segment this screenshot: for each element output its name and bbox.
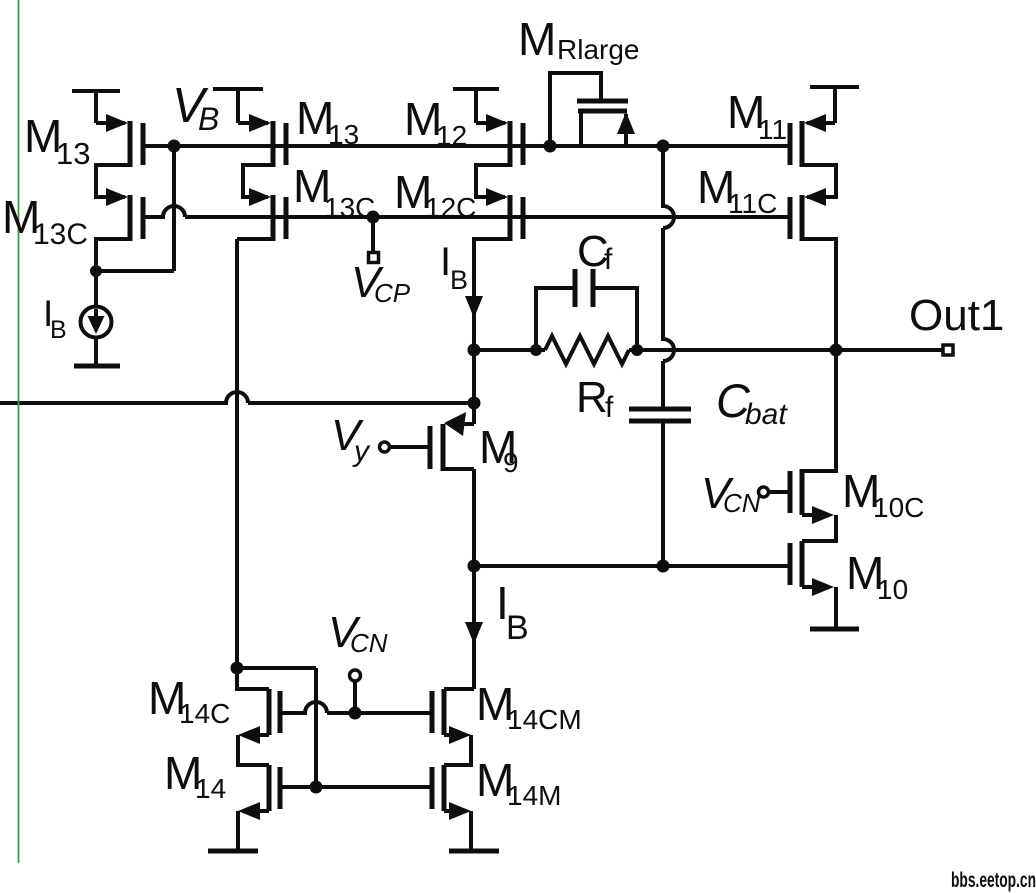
transistor M10 (NMOS) [790, 541, 836, 627]
wire: VCN stub [353, 681, 357, 713]
wire: M9 source column x=474 [472, 350, 476, 424]
current source IB (left) [81, 307, 112, 365]
node: VCN junction dot [349, 707, 362, 720]
svg-text:M: M [518, 13, 556, 65]
terminal VCN (right) [759, 487, 769, 497]
ground: below IB source [74, 364, 120, 369]
node: M14 gate junction dot [310, 781, 323, 794]
node: MRlarge gate junction dot [544, 140, 557, 153]
wire: feedback node wire y=350 left of Rf [474, 348, 545, 352]
node: Rf left dot [530, 344, 542, 356]
transistor M14 (NMOS, mirrored) [238, 765, 280, 849]
svg-text:14M: 14M [507, 780, 561, 811]
capacitor Cf [536, 269, 637, 348]
svg-text:CN: CN [723, 488, 761, 518]
svg-text:B: B [506, 609, 529, 647]
svg-text:10C: 10C [873, 492, 924, 523]
node: M13 gate junction dot [168, 140, 181, 153]
node: tail node dot x=474 y=566 [468, 560, 481, 573]
current flow arrow IB (into M14CM) [465, 622, 483, 644]
svg-text:13: 13 [56, 136, 90, 171]
transistor M11C (PMOS cascode, mirrored) [790, 165, 836, 350]
svg-text:y: y [352, 435, 371, 468]
ground: below M10 [810, 627, 859, 632]
capacitor Cbat [629, 409, 691, 566]
node: Rf right dot [631, 344, 643, 356]
svg-text:Out1: Out1 [909, 291, 1004, 340]
wire: M9 drain column x=474 down to tail node and M14CM [472, 469, 476, 689]
svg-text:f: f [605, 391, 614, 424]
ground: below M14M [449, 849, 499, 854]
svg-text:CP: CP [374, 278, 411, 308]
svg-text:11: 11 [758, 114, 787, 145]
wire: top gate bus (gates of M13/M12/M11, drain of M12) y=146 [143, 144, 790, 148]
svg-text:f: f [604, 243, 613, 276]
svg-text:11C: 11C [728, 188, 777, 219]
node: Out1 column dot [830, 344, 843, 357]
terminal VCP [369, 253, 379, 263]
wire: M13C drain node to gate-feedback vertical [96, 269, 174, 273]
transistor MRlarge (horizontal MOS resistor) [550, 73, 635, 146]
svg-text:B: B [450, 265, 468, 295]
wire: input wire y=403 with hop over x=237 [0, 392, 474, 403]
wire: M14 diode connection vertical x=316 [314, 668, 318, 787]
wire: VCN gate bus y=713 with hop over x=316 [280, 702, 432, 713]
power VDD symbol of M12 [453, 89, 499, 123]
node: IB branch dot on output wire [468, 344, 481, 357]
transistor M13 second (VB PMOS) [238, 114, 286, 167]
svg-text:12C: 12C [425, 192, 476, 223]
current flow arrow IB (into M9 node) [465, 296, 483, 318]
wire: M14 gate bus y=787 [280, 785, 432, 789]
wire: tail node bus y=566 to M10 gate [474, 564, 790, 568]
wire: Out1 column down to M10C drain [802, 350, 836, 471]
transistor M12 (PMOS) [476, 114, 523, 167]
wire: cascode gate bus y=217 with hop over x=174 [143, 206, 790, 217]
node: Cbat bottom dot [657, 560, 670, 573]
svg-text:bbs.eetop.cn: bbs.eetop.cn [951, 869, 1036, 892]
terminal VCN (bottom) [350, 670, 361, 681]
power VDD symbol of M13 [72, 91, 120, 123]
svg-text:14: 14 [195, 773, 226, 804]
transistor M12C (PMOS cascode) [474, 165, 523, 350]
node: VCP tap junction dot [367, 211, 380, 224]
svg-text:14C: 14C [179, 698, 230, 729]
transistor M14C (NMOS, mirrored) [237, 668, 280, 765]
svg-text:bat: bat [745, 398, 788, 431]
wire: M14 diode connection top [237, 666, 316, 670]
power VDD symbol of second M13 [213, 89, 263, 123]
ground: below M14 [208, 849, 258, 854]
transistor M11 (PMOS, mirrored) [790, 114, 835, 167]
svg-text:10: 10 [877, 574, 908, 605]
node: M14C drain node dot [231, 662, 244, 675]
svg-text:14CM: 14CM [507, 704, 582, 735]
svg-text:B: B [198, 101, 219, 137]
wire: VCP stub [371, 217, 375, 252]
wire: left branch long vertical x=237 down to M14C [235, 239, 239, 668]
svg-text:13C: 13C [33, 218, 88, 251]
svg-text:CN: CN [350, 628, 388, 658]
transistor M13C (PMOS cascode) [96, 165, 143, 307]
svg-text:9: 9 [503, 447, 519, 478]
svg-text:B: B [50, 316, 67, 344]
transistor M9 (PMOS, mirrored) [390, 412, 474, 471]
transistor M14M (NMOS) [432, 765, 471, 849]
border: green margin line [18, 0, 20, 863]
svg-text:12: 12 [436, 120, 467, 151]
svg-text:13: 13 [328, 119, 359, 150]
transistor M14CM (NMOS) [432, 689, 474, 765]
power VDD symbol of M11 [810, 87, 859, 123]
node: M13C drain / IB node dot [90, 265, 102, 277]
svg-text:13C: 13C [324, 192, 375, 223]
wire: vertical from M13 gate junction down to M13C drain node [172, 146, 176, 271]
node: input/M9 source junction dot [468, 397, 481, 410]
resistor Rf [545, 336, 629, 364]
terminal Out1 [943, 345, 953, 355]
wire: output wire y=350 to Out1 terminal [629, 348, 944, 352]
svg-text:R: R [576, 373, 608, 422]
terminal Vy [380, 442, 390, 452]
transistor M10C (NMOS cascode) [769, 469, 836, 541]
transistor M13C second (PMOS cascode) [237, 165, 286, 241]
node: compensation column junction dot on top bus [657, 140, 670, 153]
wire: compensation vertical x=663 with hops over y=217 and y=350 [663, 146, 674, 409]
svg-text:Rlarge: Rlarge [557, 34, 639, 65]
transistor M13 (PMOS) [96, 114, 143, 167]
